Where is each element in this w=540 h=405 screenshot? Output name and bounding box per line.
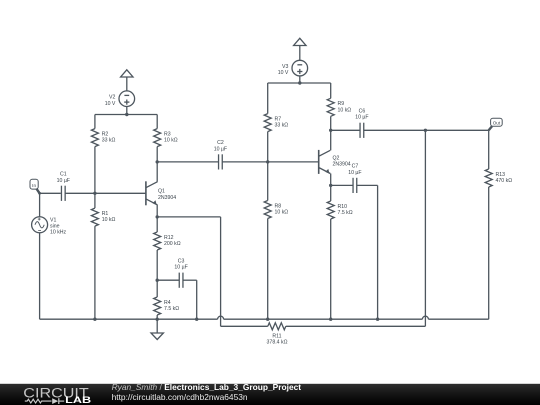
svg-text:R4: R4: [164, 300, 171, 306]
wire: [377, 185, 379, 319]
wire feedback left vertical: [220, 217, 222, 326]
node in-junction: [38, 192, 41, 195]
wire ground rail: [428, 318, 488, 320]
footer bar: [0, 384, 540, 405]
svg-text:10 µF: 10 µF: [355, 115, 368, 121]
node Q2 emitter junction: [329, 184, 332, 187]
node Q1 emitter junction: [156, 215, 159, 218]
node R8 ground junction: [266, 318, 269, 321]
flag In: [30, 179, 40, 193]
wire: [196, 280, 198, 319]
resistor R12: [154, 217, 181, 280]
node Q1 collector junction: [156, 160, 159, 163]
node R7 R8 junction: [266, 160, 269, 163]
node ground junction: [156, 318, 159, 321]
wire: [67, 192, 95, 194]
CircuitLab logo: [23, 385, 91, 405]
svg-text:V1: V1: [50, 217, 56, 223]
resistor R11: [267, 323, 288, 346]
svg-text:C7: C7: [352, 164, 359, 170]
svg-text:C2: C2: [217, 140, 224, 146]
node V2 junction: [125, 113, 128, 116]
svg-text:C3: C3: [178, 258, 185, 264]
svg-text:In: In: [32, 183, 36, 188]
wire ground rail: [224, 318, 423, 320]
footer title text: [112, 382, 302, 392]
node V3 junction: [298, 81, 301, 84]
wire ground rail: [40, 318, 218, 320]
svg-text:Out: Out: [493, 120, 501, 125]
node output feedback junction: [424, 129, 427, 132]
footer url text: [112, 392, 248, 402]
resistor R3: [154, 115, 178, 162]
svg-text:C1: C1: [60, 172, 67, 178]
node R10 ground junction: [329, 318, 332, 321]
svg-text:378.4 kΩ: 378.4 kΩ: [267, 340, 288, 346]
svg-text:2N3904: 2N3904: [333, 162, 351, 168]
svg-text:R1: R1: [102, 211, 109, 217]
svg-text:7.5 kΩ: 7.5 kΩ: [338, 210, 353, 216]
svg-text:R8: R8: [275, 203, 282, 209]
svg-text:33 kΩ: 33 kΩ: [275, 123, 289, 129]
node R12 bottom junction: [156, 279, 159, 282]
svg-text:10 µF: 10 µF: [57, 178, 70, 184]
svg-text:10 kΩ: 10 kΩ: [102, 217, 116, 223]
wire feedback right vertical: [424, 130, 426, 326]
svg-text:R10: R10: [338, 204, 348, 210]
resistor R4: [154, 280, 180, 319]
wire: [330, 130, 332, 150]
svg-text:10 V: 10 V: [105, 101, 116, 107]
svg-text:10 kΩ: 10 kΩ: [275, 210, 289, 216]
wire: [126, 107, 128, 115]
ground: [151, 319, 163, 339]
svg-text:10 µF: 10 µF: [348, 170, 361, 176]
transistor Q2: [319, 150, 351, 174]
voltage source V1: [32, 217, 67, 236]
svg-text:10 kHz: 10 kHz: [50, 230, 67, 236]
wire: [268, 161, 319, 163]
capacitor C3: [157, 258, 197, 287]
wire V3 rail: [268, 82, 331, 84]
svg-text:R11: R11: [272, 333, 281, 339]
node base-divider junction: [93, 192, 96, 195]
node C3 ground junction: [195, 318, 198, 321]
svg-text:C6: C6: [359, 109, 366, 115]
svg-text:R12: R12: [164, 235, 174, 241]
svg-text:470 kΩ: 470 kΩ: [496, 178, 513, 184]
svg-text:R9: R9: [338, 101, 345, 107]
node Q2 collector junction: [329, 129, 332, 132]
svg-text:http://circuitlab.com/cdhb2nwa: http://circuitlab.com/cdhb2nwa6453n: [112, 392, 248, 402]
resistor R10: [327, 185, 353, 319]
resistor R13: [485, 130, 512, 319]
node R1 ground junction: [93, 318, 96, 321]
flag Out: [489, 118, 503, 130]
wire: [157, 216, 220, 218]
svg-text:10 kΩ: 10 kΩ: [338, 107, 352, 113]
capacitor C7: [331, 164, 378, 193]
svg-text:V3: V3: [282, 64, 288, 70]
transistor Q1: [146, 181, 176, 205]
wire hop over feedback: [422, 316, 428, 319]
svg-text:10 V: 10 V: [278, 70, 289, 76]
svg-text:10 µF: 10 µF: [174, 265, 187, 271]
svg-text:R2: R2: [102, 131, 109, 137]
resistor R1: [91, 193, 115, 319]
node C7 ground junction: [376, 318, 379, 321]
wire hop over feedback: [218, 316, 224, 319]
wire: [95, 192, 146, 194]
power flag above V2: [121, 70, 133, 77]
wire: [156, 162, 158, 182]
capacitor C1: [57, 172, 70, 201]
svg-text:10 kΩ: 10 kΩ: [164, 138, 178, 144]
svg-text:200 kΩ: 200 kΩ: [164, 241, 181, 247]
resistor R2: [91, 115, 115, 194]
svg-text:R7: R7: [275, 116, 282, 122]
svg-text:Q1: Q1: [158, 189, 165, 195]
voltage source V2: [105, 91, 135, 107]
resistor R9: [327, 83, 351, 130]
svg-text:sine: sine: [50, 224, 60, 230]
svg-text:V2: V2: [109, 95, 115, 101]
wire: [221, 325, 268, 327]
wire: [286, 325, 426, 327]
svg-text:LAB: LAB: [65, 395, 91, 405]
svg-text:10 µF: 10 µF: [214, 146, 227, 152]
resistor R7: [264, 83, 288, 162]
capacitor C6: [331, 109, 489, 138]
capacitor C2: [157, 140, 268, 169]
svg-text:33 kΩ: 33 kΩ: [102, 138, 116, 144]
svg-text:2N3904: 2N3904: [158, 195, 176, 201]
svg-text:R13: R13: [496, 172, 506, 178]
svg-text:Ryan_Smith / Electronics_Lab_3: Ryan_Smith / Electronics_Lab_3_Group_Pro…: [112, 382, 302, 392]
wire: [330, 174, 332, 186]
wire V2 rail: [95, 114, 157, 116]
wire: [39, 233, 41, 319]
voltage source V3: [278, 60, 308, 76]
svg-text:7.5 kΩ: 7.5 kΩ: [164, 306, 179, 312]
wire: [156, 205, 158, 217]
wire: [299, 46, 301, 61]
svg-text:Q2: Q2: [333, 156, 340, 162]
power flag above V3: [294, 38, 306, 45]
wire: [40, 192, 61, 194]
wire: [126, 77, 128, 91]
wire: [39, 193, 41, 217]
svg-text:R3: R3: [164, 131, 171, 137]
resistor R8: [264, 162, 288, 319]
wire: [299, 76, 301, 83]
